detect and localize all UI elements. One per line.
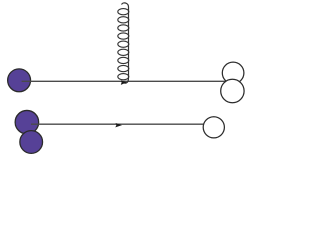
white circle bottom-right — [203, 117, 224, 138]
purple particle circle (top left) — [8, 69, 31, 92]
coil ring 4 — [118, 33, 129, 39]
white circle top-right upper — [222, 62, 244, 84]
coil ring 9 — [118, 74, 129, 80]
arrowhead on top line — [121, 80, 127, 85]
coil ring 7 — [118, 57, 129, 63]
arrowhead on bottom line — [115, 123, 122, 127]
wire: top horizontal line — [22, 80, 227, 82]
coil ring 2 — [118, 17, 129, 23]
wire: bottom horizontal line — [31, 123, 208, 125]
coil ring 1 — [118, 9, 129, 15]
coil ring 8 — [118, 65, 129, 71]
purple circle bottom-left upper — [15, 110, 39, 134]
coil ring 6 — [118, 49, 129, 55]
coil ring 3 — [118, 25, 129, 31]
coil ring 5 — [118, 41, 129, 47]
purple circle bottom-left lower (drawn over upper) — [20, 131, 43, 154]
coil spine: top hook, vertical right line, bottom hook — [122, 3, 129, 83]
white circle top-right lower (drawn over upper) — [221, 79, 244, 102]
